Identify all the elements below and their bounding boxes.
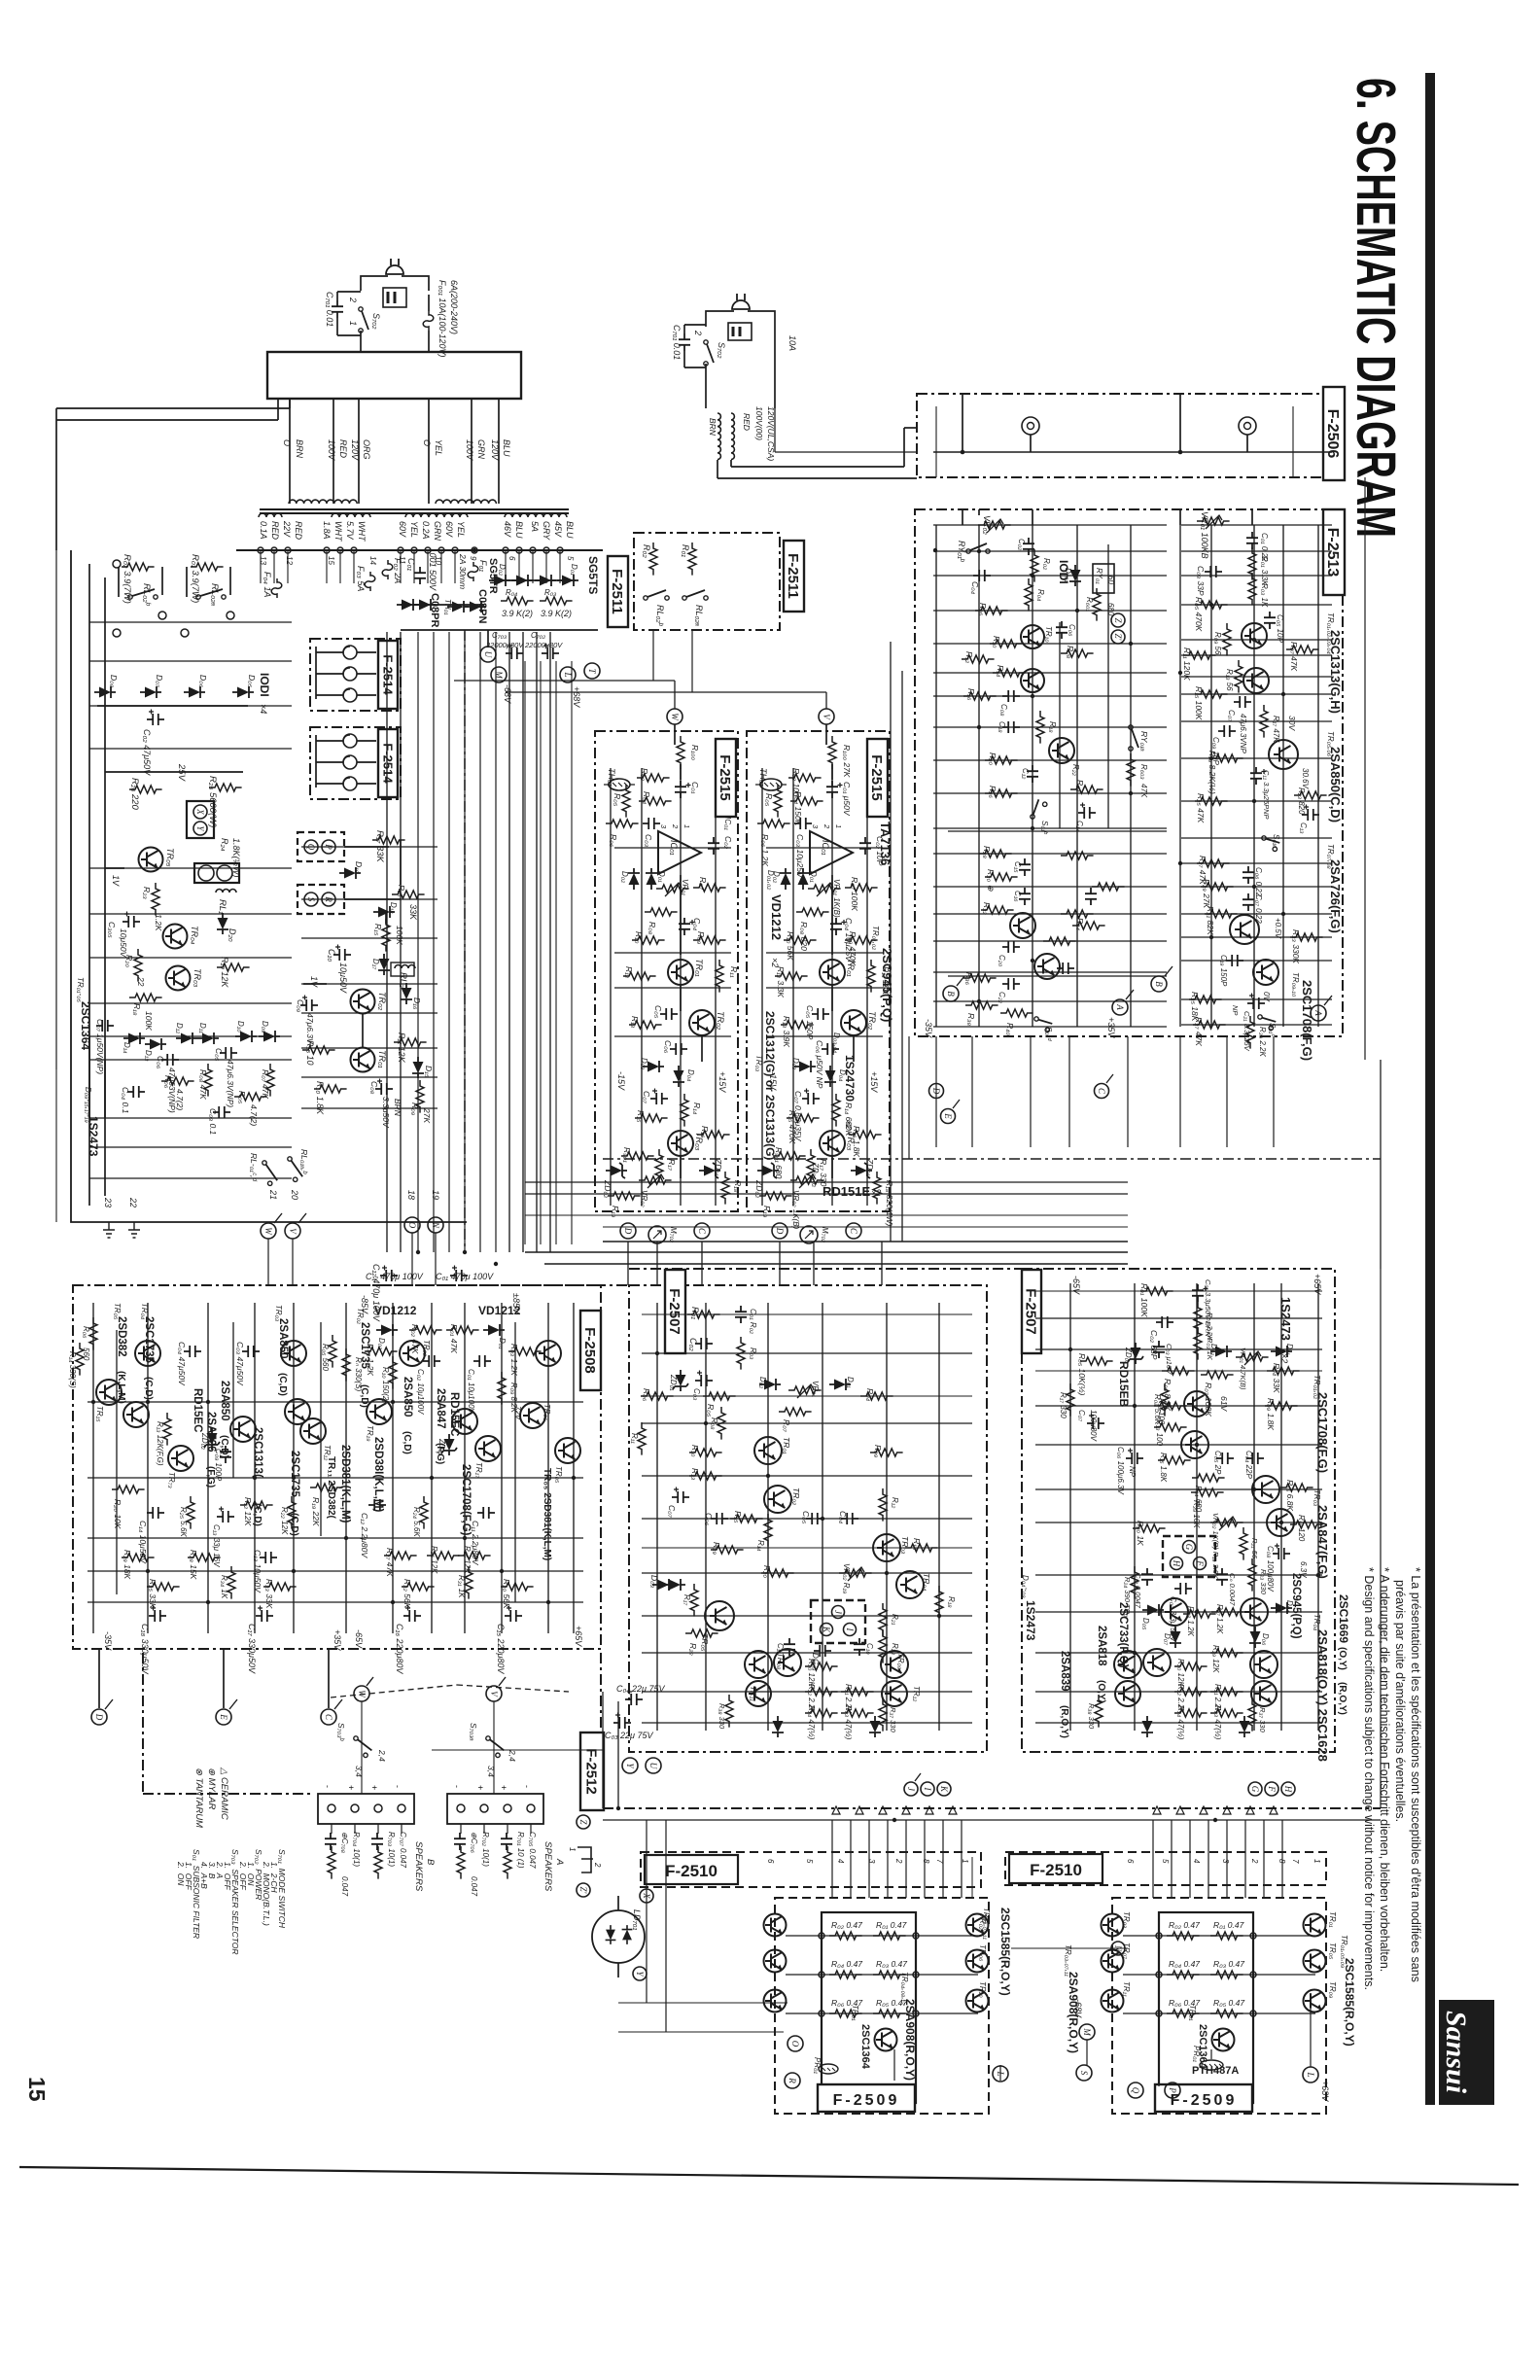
bus f2507 top (629, 1268, 1022, 1270)
svg-text:YEL: YEL (409, 521, 419, 538)
capacitor C05 (660, 1008, 678, 1020)
resistor R08d (717, 1407, 725, 1440)
terminal K (937, 1782, 951, 1796)
svg-text:2SA908(R,O,Y): 2SA908(R,O,Y) (903, 1999, 917, 2081)
diode D09R (1239, 1716, 1250, 1737)
resistor R36 (963, 974, 997, 982)
resistor R32 56K (402, 1583, 435, 1591)
capacitor C10r (1141, 1568, 1153, 1586)
capacitor C18 330u50V (149, 1606, 166, 1623)
transistor TR01 2SC1364 left (875, 2029, 897, 2051)
resistor R15 (635, 1114, 668, 1122)
svg-text:C₇₀₂: C₇₀₂ (531, 631, 545, 640)
resistor R35 33K (147, 1583, 180, 1591)
svg-text:100K: 100K (395, 926, 404, 945)
svg-text:TH₀₁: TH₀₁ (607, 768, 616, 787)
resistor R14 330(S) (76, 1343, 84, 1376)
op-amp IC01 TA7136 (810, 831, 853, 874)
resistor R07 (693, 884, 726, 892)
svg-text:TR₀₉: TR₀₉ (1328, 1981, 1337, 1998)
transistor TR02d (764, 1486, 791, 1513)
resistor R04m (1025, 578, 1032, 612)
capacitor C702 22000u80V (542, 644, 559, 660)
resistor R17d (690, 1584, 698, 1617)
capacitor C08r 100u80V (1273, 1544, 1290, 1560)
svg-text:WHT: WHT (333, 521, 343, 542)
svg-text:ZD₀₁: ZD₀₁ (437, 1438, 446, 1455)
svg-text:C₀₂ 47μ50V: C₀₂ 47μ50V (142, 729, 152, 776)
resistor R05 (622, 785, 630, 818)
svg-text:C₀₃ 47μ50V: C₀₃ 47μ50V (235, 1342, 245, 1386)
svg-text:D: D (775, 1227, 785, 1235)
svg-text:14: 14 (368, 556, 377, 565)
capacitor C03s 22u75V (613, 1713, 631, 1730)
transistor TR10a (1021, 625, 1044, 648)
svg-text:F-2512: F-2512 (583, 1748, 600, 1795)
svg-text:D₁₅: D₁₅ (424, 1066, 434, 1078)
svg-text:H: H (1283, 1785, 1293, 1793)
wire mid relay rows (301, 846, 437, 848)
svg-text:Z': Z' (578, 1887, 588, 1895)
svg-text:R₀₁ 47K: R₀₁ 47K (449, 1324, 459, 1353)
terminal C bot (321, 1709, 336, 1725)
svg-text:61V: 61V (1219, 1396, 1229, 1412)
transistor TR11L (746, 1681, 771, 1706)
svg-text:BLU: BLU (565, 521, 575, 539)
svg-text:2. ON: 2. ON (176, 1861, 186, 1886)
svg-text:(O,Y): (O,Y) (1337, 1647, 1347, 1670)
resistor R03 3.9K(2) (540, 597, 573, 605)
svg-text:R₀₄: R₀₄ (865, 1388, 875, 1402)
svg-text:15: 15 (24, 2077, 50, 2102)
svg-text:TR₀₆: TR₀₆ (978, 1944, 987, 1962)
capacitor C18m (1002, 721, 1020, 733)
svg-text:R₃₂ 56K: R₃₂ 56K (402, 1579, 412, 1609)
capacitor C12 470u100V (380, 1266, 398, 1282)
resistor R18d (935, 1586, 943, 1619)
svg-text:2SC1735: 2SC1735 (289, 1451, 300, 1498)
svg-text:+: + (369, 1785, 379, 1790)
svg-text:(R,O,Y): (R,O,Y) (1337, 1682, 1347, 1715)
capacitor C07 (650, 1089, 668, 1105)
resistor R32 (981, 906, 1014, 914)
svg-text:GRY: GRY (542, 521, 551, 541)
svg-text:S₇₀₂: S₇₀₂ (371, 313, 381, 330)
terminal O (404, 1217, 420, 1233)
resistor R27L 47K (384, 1552, 417, 1559)
terminal W/V input (819, 709, 834, 724)
AC plug P1 (386, 259, 403, 274)
switch S01a (1261, 831, 1282, 853)
svg-text:2SA726(F,G): 2SA726(F,G) (1328, 859, 1343, 933)
zener ZD01L (441, 1434, 457, 1455)
wire right f2513 to f2507 long (1380, 1060, 1382, 1269)
transistor TR01d (754, 1437, 782, 1464)
svg-text:21: 21 (268, 1189, 278, 1200)
svg-text:TR₀₃: TR₀₃ (1312, 1489, 1321, 1506)
svg-text:RED: RED (270, 521, 280, 541)
fuse housing 2 (728, 323, 752, 340)
resistor R15 (787, 1114, 820, 1122)
svg-text:TR₁₀: TR₁₀ (978, 1981, 987, 1998)
svg-text:R₀₃ 1K: R₀₃ 1K (1260, 583, 1269, 608)
svg-text:D₁₈: D₁₈ (389, 902, 398, 914)
diode ZD02L (204, 1428, 220, 1450)
transistor TR01 (820, 960, 845, 985)
svg-text:C₀₄: C₀₄ (616, 1684, 630, 1694)
resistor R01 3.3K (1248, 547, 1256, 580)
svg-text:23: 23 (103, 1197, 113, 1207)
svg-text:TR₁₀: TR₁₀ (1044, 626, 1053, 643)
svg-text:M₇₀₂: M₇₀₂ (821, 1227, 829, 1242)
diode D05 (232, 686, 254, 698)
wire f2509 terminal links (821, 2065, 822, 2081)
svg-text:R₀₉ 1.8K: R₀₉ 1.8K (1266, 1398, 1276, 1430)
resistor R13d (689, 1472, 722, 1480)
wire bottom rails to F2509 (618, 2002, 787, 2004)
resistor R12 (623, 972, 656, 980)
svg-text:22000μ80V: 22000μ80V (524, 641, 563, 649)
svg-text:30V: 30V (1287, 716, 1297, 731)
capacitor C05r 2P (1216, 1452, 1234, 1464)
svg-text:+65V: +65V (1312, 1274, 1322, 1295)
svg-text:+0.5V: +0.5V (1274, 918, 1282, 939)
svg-text:R₀₇ 100K: R₀₇ 100K (850, 877, 859, 911)
transistor TR03L (281, 1341, 306, 1366)
svg-text:6: 6 (507, 556, 516, 561)
wire f2513 to f2507 (935, 1036, 937, 1147)
speaker terminal strip B (318, 1794, 414, 1824)
svg-text:2SC1313(G,H): 2SC1313(G,H) (1328, 630, 1343, 714)
svg-text:R₁₉ 12K: R₁₉ 12K (220, 957, 229, 988)
module box F-2508 (73, 1285, 601, 1649)
resistor R37L 330 (879, 1698, 887, 1732)
svg-text:2A 30mm: 2A 30mm (458, 553, 468, 589)
capacitor filler f2513 (1085, 888, 1097, 905)
secondary winding b (332, 513, 370, 517)
svg-text:Cₙ 0.0047: Cₙ 0.0047 (1228, 1573, 1237, 1606)
terminal Z spk (577, 1815, 590, 1829)
resistor R16 (849, 1131, 882, 1138)
pot VR02d R19d (839, 1569, 872, 1577)
svg-text:H: H (1172, 1559, 1181, 1567)
label box F-2507 left (665, 1270, 685, 1353)
svg-text:R₀₅: R₀₅ (237, 1091, 247, 1104)
svg-text:R₀₉ 56: R₀₉ 56 (1213, 632, 1222, 655)
svg-text:F-2515: F-2515 (717, 754, 733, 801)
capacitor C14L 10u50V (147, 1507, 164, 1519)
svg-text:R₃₆: R₃₆ (964, 972, 974, 986)
svg-text:R₃₃ 33K: R₃₃ 33K (264, 1579, 274, 1609)
transistor TR right2 left (966, 1990, 989, 2012)
capacitor C01 (826, 781, 843, 798)
transistor TR20L (555, 1438, 580, 1463)
junction dots misc (416, 1250, 420, 1254)
transistor TR02t (1243, 668, 1269, 693)
zener ZD02 (606, 1163, 627, 1178)
wire left-mid verticals (524, 661, 526, 1244)
svg-text:R₂₅ 5.6K: R₂₅ 5.6K (179, 1507, 188, 1537)
resistor R₀₆ 0.47 left (829, 2010, 862, 2017)
resistor R01 3.9(7W) (191, 563, 224, 571)
diode D13 (145, 1038, 166, 1050)
svg-text:1: 1 (568, 1847, 577, 1851)
svg-text:5: 5 (805, 1859, 814, 1864)
svg-text:SG5TS: SG5TS (586, 556, 600, 594)
svg-text:2: 2 (671, 823, 680, 829)
terminal U mid (646, 1758, 661, 1773)
resistor R34L 47 (805, 1709, 838, 1717)
capacitor C06 (670, 1043, 687, 1055)
svg-text:C₁₅: C₁₅ (1013, 861, 1022, 873)
resistor R₀₁ 0.47 left (873, 1932, 906, 1940)
transistor TR right1 left (966, 1950, 989, 1973)
svg-text:15: 15 (327, 556, 335, 565)
svg-text:F-2507: F-2507 (666, 1288, 682, 1335)
wire mid connects (602, 1692, 604, 1808)
resistor R34R 47 (1174, 1709, 1207, 1717)
svg-text:8: 8 (922, 1859, 930, 1864)
terminal Z' spk (577, 1883, 590, 1897)
resistor R15 100K (382, 919, 390, 952)
diode D01r (1271, 1346, 1292, 1357)
svg-text:C: C (324, 1714, 333, 1721)
svg-text:R₁₈ 120: R₁₈ 120 (1297, 1515, 1306, 1542)
relay RL1 coil (216, 890, 236, 893)
resistor R17t 47K (1260, 705, 1268, 738)
svg-text:R₁₂: R₁₂ (891, 1497, 899, 1508)
svg-text:0.047: 0.047 (470, 1876, 478, 1897)
svg-text:R₀₂: R₀₂ (642, 544, 651, 558)
wire bottom-left bus verticals (646, 1820, 647, 2003)
resistor R15r 1.8K (1158, 1456, 1191, 1464)
capacitor C07b 0.22 (1242, 893, 1254, 911)
svg-text:R₃₅ 33K: R₃₅ 33K (148, 1579, 157, 1609)
svg-text:D₀₁: D₀₁ (809, 871, 818, 883)
svg-text:D₂₀: D₂₀ (227, 928, 237, 942)
svg-text:⊕C₇₀₆: ⊕C₇₀₆ (470, 1832, 478, 1854)
svg-text:C₁₂: C₁₂ (1021, 768, 1030, 779)
svg-text:R₃₃ 330K: R₃₃ 330K (1291, 929, 1301, 963)
resistor R13 (781, 1021, 814, 1029)
svg-text:-68V: -68V (1073, 1999, 1083, 2018)
resistor R05d (703, 1392, 736, 1400)
svg-text:C: C (849, 1228, 858, 1235)
svg-text:Z': Z' (1113, 634, 1123, 642)
svg-text:47K: 47K (1139, 784, 1148, 798)
resistor R? 330(S) (342, 1348, 350, 1382)
capacitor C09d (814, 1645, 831, 1657)
svg-text:TR₀₁,₀₂: TR₀₁,₀₂ (871, 926, 880, 950)
emitter resistor board left (822, 1912, 916, 2103)
svg-text:S₀₁ᵈ: S₀₁ᵈ (1044, 1027, 1053, 1041)
rectifier output bus (401, 629, 598, 631)
capacitor C15m (1019, 858, 1031, 876)
svg-text:2SC1708(F,G): 2SC1708(F,G) (460, 1464, 472, 1536)
svg-text:PR₀₁: PR₀₁ (813, 2057, 822, 2074)
svg-text:S₀₁ₐ: S₀₁ₐ (1272, 834, 1280, 848)
resistor R01r (688, 542, 696, 576)
resistor R01 100K (1140, 1287, 1173, 1295)
svg-text:TR₀₄: TR₀₄ (190, 926, 199, 945)
svg-text:R₁₇: R₁₇ (667, 1159, 677, 1172)
svg-text:D₀₁: D₀₁ (570, 564, 578, 576)
capacitor C11t (1250, 767, 1267, 785)
resistor R07 47K (266, 1064, 274, 1097)
svg-text:R₃₉ 2.2K: R₃₉ 2.2K (1258, 1027, 1267, 1057)
svg-text:R₀₂ 0.47: R₀₂ 0.47 (1169, 1920, 1200, 1930)
svg-text:C₇₀₁ 0.01: C₇₀₁ 0.01 (325, 292, 334, 327)
svg-text:YEL: YEL (456, 521, 466, 538)
fuse F001 (423, 311, 434, 331)
svg-text:100μ80V: 100μ80V (1089, 1410, 1098, 1442)
svg-text:6. SCHEMATIC DIAGRAM: 6. SCHEMATIC DIAGRAM (1345, 78, 1407, 538)
resistor R07 47K (1286, 646, 1319, 653)
svg-text:R₀₇: R₀₇ (782, 1419, 791, 1433)
transistor TR19L (367, 1399, 392, 1424)
svg-text:Q: Q (1131, 2087, 1140, 2094)
svg-text:-68V: -68V (503, 684, 512, 704)
resistor R20d (761, 1569, 794, 1577)
svg-text:F₀₁: F₀₁ (478, 560, 488, 572)
svg-text:A: A (554, 1858, 565, 1865)
svg-text:R₃₉: R₃₉ (712, 1542, 721, 1556)
wire f2515L grid (610, 768, 612, 1206)
capacitor C04r 22P (1246, 1452, 1264, 1464)
svg-text:R₇₀₃ 10(1): R₇₀₃ 10(1) (387, 1832, 396, 1867)
svg-text:+: + (346, 1785, 356, 1790)
svg-text:R₀₃ 0.47: R₀₃ 0.47 (1213, 1959, 1244, 1969)
svg-text:TR₀₂: TR₀₂ (422, 1340, 431, 1356)
svg-text:VR₀₁ 4.7K(B): VR₀₁ 4.7K(B) (1239, 1347, 1247, 1390)
svg-text:2SA847(F,G): 2SA847(F,G) (1315, 1505, 1330, 1579)
resistor R11 (716, 960, 723, 993)
svg-text:-35V: -35V (924, 1019, 933, 1038)
svg-text:2SC1312(G) or 2SC1313(G): 2SC1312(G) or 2SC1313(G) (763, 1011, 777, 1160)
transistor TR02 (841, 1010, 866, 1035)
svg-text:S₇₀₂: S₇₀₂ (717, 342, 726, 359)
svg-text:C₁₆ 220μ80V: C₁₆ 220μ80V (395, 1624, 404, 1674)
capacitor C12m (1027, 765, 1038, 783)
wire f2507R grid (1035, 1317, 1322, 1319)
svg-text:C₁₂ 2.2μ80V: C₁₂ 2.2μ80V (360, 1513, 369, 1558)
capacitor C03 0.1 (213, 1106, 230, 1118)
svg-text:22: 22 (128, 1197, 138, 1207)
resistor R20L 10K (112, 1486, 145, 1493)
svg-text:R₁₃ 3.9K: R₁₃ 3.9K (782, 1016, 791, 1047)
resistor R05 4.7(2) (234, 1093, 267, 1101)
svg-text:R₁₆: R₁₆ (700, 1126, 710, 1138)
svg-text:R₂₈: R₂₈ (982, 846, 992, 858)
diode D15 (412, 1057, 424, 1078)
svg-text:RL₀₁ₐ,ᵇ: RL₀₁ₐ,ᵇ (299, 1149, 309, 1175)
svg-text:C₀₆: C₀₆ (1067, 624, 1076, 637)
svg-text:3.9 K(2): 3.9 K(2) (502, 609, 533, 618)
pot VR01r (1236, 1353, 1269, 1361)
svg-text:12: 12 (285, 556, 294, 565)
switch S01c (1257, 1010, 1278, 1032)
wire plug to junction (361, 276, 388, 291)
svg-text:R₀₂ 0.47: R₀₂ 0.47 (831, 1920, 862, 1930)
svg-text:R₀₂: R₀₂ (1042, 558, 1051, 570)
resistor R27r 1.2K (1211, 1608, 1244, 1616)
svg-text:R₇₀₁ 10 (1): R₇₀₁ 10 (1) (516, 1832, 525, 1869)
svg-text:R₀₄: R₀₄ (642, 791, 651, 805)
label F-2510 left (645, 1855, 738, 1884)
resistor R32L 2.2K (805, 1688, 838, 1696)
capacitor C08m (1002, 690, 1020, 702)
resistor R29 27K (1201, 883, 1234, 891)
svg-text:⊕C₇₀₈: ⊕C₇₀₈ (340, 1832, 349, 1854)
svg-text:C₁₉ 150P: C₁₉ 150P (1219, 955, 1228, 987)
capacitor C02 68P (1156, 1316, 1173, 1328)
module box F-2506 (917, 394, 1345, 477)
diode D01b (535, 575, 556, 586)
capacitor C305 10u50V (122, 912, 140, 928)
meter M702 (800, 1226, 818, 1243)
svg-text:D₁₁: D₁₁ (198, 1023, 207, 1033)
module box F-2510 right (1005, 1852, 1326, 1885)
diode D03 (794, 1061, 816, 1072)
transistor TR09L (230, 1417, 256, 1442)
wire top-mid connects to F-2515 W (454, 680, 675, 682)
svg-text:F-2511: F-2511 (609, 569, 625, 614)
resistor R06 4.7(2) (161, 1077, 194, 1085)
svg-text:D: D (94, 1713, 104, 1721)
svg-text:2: 2 (693, 330, 703, 335)
resistor R32R 2.2K (1174, 1688, 1207, 1696)
fuse F01 (468, 562, 478, 581)
svg-text:M: M (1082, 2027, 1092, 2036)
capacitor C0047r (1216, 1568, 1228, 1586)
resistor R04 3.9K(2) (501, 597, 534, 605)
wire long verticals center (417, 632, 419, 1252)
resistor R04 (639, 797, 672, 805)
terminal D (620, 1223, 636, 1239)
capacitor C12L 2.2u80V (368, 1499, 386, 1511)
resistor R13 10 (302, 1046, 335, 1054)
svg-text:4.7(2): 4.7(2) (175, 1089, 185, 1110)
diode D18 (373, 906, 395, 918)
capacitor C16 220u80V (403, 1606, 421, 1623)
resistor R10 1.8K (314, 1085, 347, 1093)
resistor R17r 330 (1067, 1383, 1074, 1417)
terminal W spk (354, 1686, 369, 1701)
svg-text:R₁₈ 820(1W): R₁₈ 820(1W) (885, 1180, 894, 1227)
svg-text:R₀₇: R₀₇ (698, 877, 708, 891)
thermistor TH01 (755, 779, 787, 790)
junction dots f2508 (91, 1400, 95, 1404)
diode D08R (1141, 1716, 1153, 1737)
terminal G (1248, 1782, 1262, 1796)
svg-text:100V: 100V (327, 439, 336, 461)
capacitor C01r + R02 (1192, 1284, 1208, 1302)
resistor R11d (638, 1422, 646, 1455)
resistor R24m (1070, 786, 1103, 793)
wires relay block (344, 846, 389, 848)
resistor R19 (759, 1192, 792, 1200)
svg-text:R₂₉ 18K: R₂₉ 18K (122, 1550, 132, 1580)
svg-text:C₀₈: C₀₈ (999, 704, 1008, 717)
capacitor C13t (1302, 805, 1319, 822)
terminal J (904, 1782, 918, 1796)
resistor R37 47K (1193, 1021, 1226, 1029)
svg-text:C₀₁ R₀₂: C₀₁ R₀₂ (749, 1309, 757, 1334)
terminal A right (1311, 1005, 1326, 1021)
svg-text:TR₀₃: TR₀₃ (192, 968, 202, 988)
svg-text:R₃₈ 330: R₃₈ 330 (717, 1703, 726, 1730)
svg-text:2SC1585(R,O,Y): 2SC1585(R,O,Y) (998, 1907, 1012, 1996)
